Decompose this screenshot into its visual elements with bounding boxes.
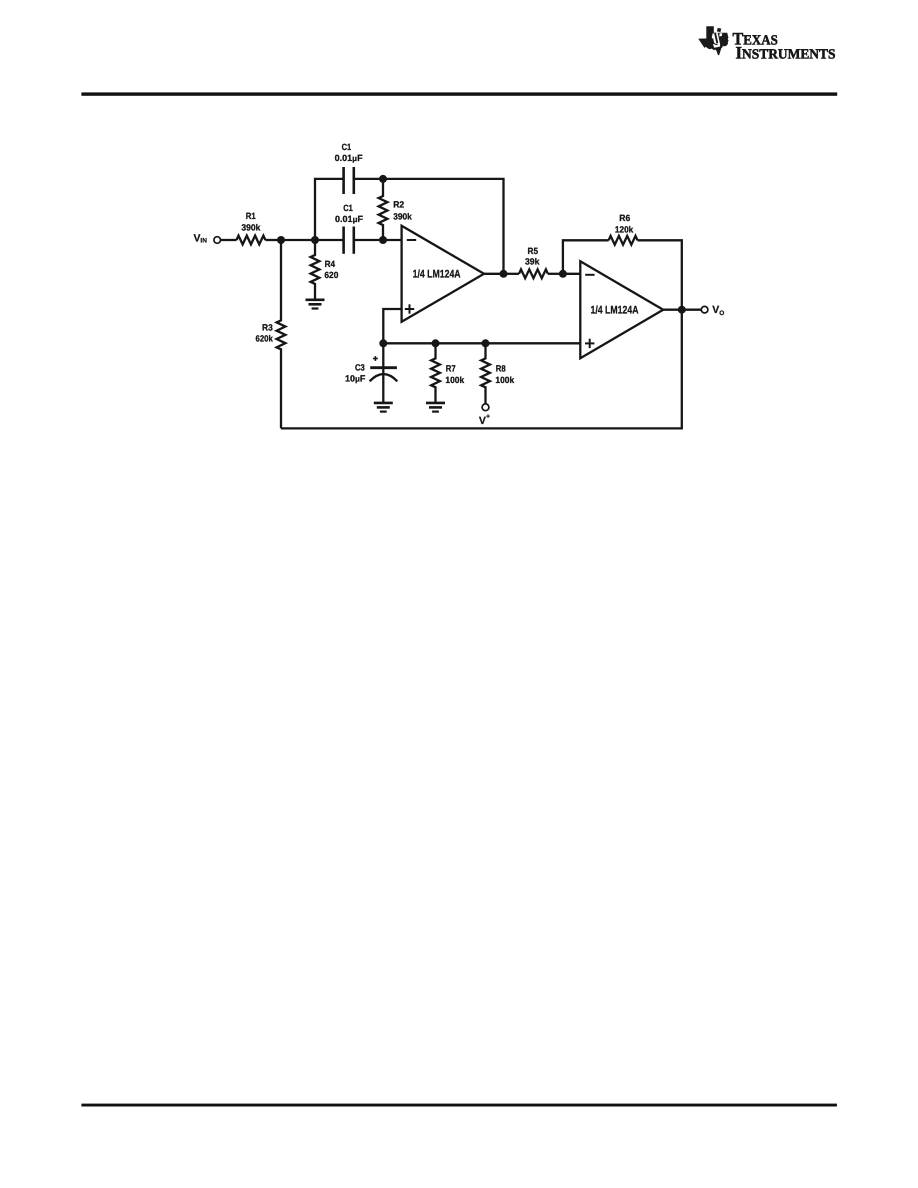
svg-text:V: V bbox=[479, 415, 486, 427]
op-amp U1 1/4 LM124A bbox=[402, 226, 484, 322]
svg-text:39k: 39k bbox=[525, 257, 540, 267]
svg-text:R2: R2 bbox=[393, 199, 404, 209]
node G junction (output) bbox=[678, 306, 686, 314]
wire plus rail node H to op-amp U2 plus input bbox=[383, 342, 580, 344]
node D junction (top of R2) bbox=[379, 175, 387, 183]
svg-text:C1: C1 bbox=[343, 203, 353, 213]
wire node C to op-amp U1 minus input bbox=[383, 239, 402, 241]
resistor R6 bbox=[609, 236, 638, 245]
capacitor C1 (input, lower) bbox=[344, 227, 354, 254]
node VIN terminal bbox=[214, 237, 221, 244]
svg-text:1/4 LM124A: 1/4 LM124A bbox=[413, 268, 461, 280]
svg-text:1/4 LM124A: 1/4 LM124A bbox=[591, 304, 639, 316]
TI logo Texas-map emblem bbox=[698, 26, 728, 55]
node J junction bbox=[482, 339, 490, 347]
wire C3 to ground bbox=[382, 381, 384, 402]
op-amp U1 plus sign bbox=[405, 304, 414, 313]
label C1 0.01uF (top) bbox=[335, 142, 363, 163]
op-amp U2 plus sign bbox=[585, 339, 594, 348]
wire VIN to R1 bbox=[221, 239, 237, 241]
resistor R7 bbox=[431, 343, 440, 402]
svg-text:R1: R1 bbox=[246, 211, 256, 221]
wire R1 to node A bbox=[265, 239, 281, 241]
resistor R4 bbox=[311, 240, 320, 299]
op-amp U2 1/4 LM124A bbox=[580, 261, 663, 358]
label VIN bbox=[194, 233, 208, 245]
ground for R4 bbox=[306, 300, 325, 309]
wire op-amp U2 output to node G bbox=[663, 309, 682, 311]
label C3 10uF bbox=[345, 362, 366, 383]
wire node B up to top capacitor branch bbox=[315, 179, 344, 240]
wire node F up to R6 feedback bbox=[563, 240, 609, 273]
svg-text:C1: C1 bbox=[342, 142, 352, 152]
svg-text:100k: 100k bbox=[445, 375, 465, 385]
svg-text:R6: R6 bbox=[619, 213, 630, 223]
svg-text:390k: 390k bbox=[393, 212, 413, 222]
label C1 0.01uF (lower) bbox=[335, 203, 363, 224]
label R5 39k bbox=[525, 246, 540, 267]
wire R6 to node G bbox=[638, 240, 682, 309]
resistor R1 bbox=[237, 236, 266, 245]
bottom rule bbox=[81, 1104, 837, 1107]
svg-text:R8: R8 bbox=[496, 363, 506, 373]
wire node E to R5 bbox=[504, 273, 520, 275]
svg-text:R3: R3 bbox=[262, 322, 273, 332]
resistor R5 bbox=[519, 269, 548, 278]
label R7 100k bbox=[445, 363, 465, 385]
svg-text:390k: 390k bbox=[241, 223, 261, 233]
label R4 620 bbox=[324, 259, 338, 280]
node C junction (inverting input) bbox=[379, 236, 387, 244]
node B junction bbox=[311, 236, 319, 244]
label R6 120k bbox=[615, 213, 634, 235]
label U1 1/4 LM124A bbox=[413, 268, 461, 280]
node A junction bbox=[277, 236, 285, 244]
svg-text:R4: R4 bbox=[325, 259, 336, 269]
node V+ terminal bbox=[482, 404, 489, 411]
label R8 100k bbox=[495, 363, 515, 385]
svg-text:10μF: 10μF bbox=[345, 374, 366, 384]
label R1 390k bbox=[241, 211, 261, 233]
label VO bbox=[712, 304, 724, 317]
node I junction bbox=[432, 339, 440, 347]
label U2 1/4 LM124A bbox=[591, 304, 639, 316]
svg-text:O: O bbox=[719, 310, 724, 317]
node VO terminal bbox=[701, 306, 708, 313]
ground for C3 bbox=[374, 403, 393, 412]
label R3 620k bbox=[256, 322, 274, 343]
svg-text:120k: 120k bbox=[615, 225, 634, 235]
wire node B to capacitor C1b bbox=[315, 239, 344, 241]
node H junction bbox=[379, 339, 387, 347]
svg-text:0.01μF: 0.01μF bbox=[335, 153, 363, 163]
wire node F to op-amp U2 minus input bbox=[563, 273, 580, 275]
TI logo wordmark TEXAS INSTRUMENTS bbox=[733, 29, 836, 63]
svg-text:+: + bbox=[486, 413, 490, 420]
svg-text:100k: 100k bbox=[495, 375, 515, 385]
svg-text:R7: R7 bbox=[446, 363, 456, 373]
svg-text:0.01μF: 0.01μF bbox=[335, 214, 363, 224]
top rule bbox=[81, 92, 837, 95]
resistor R2 bbox=[379, 179, 388, 240]
wire capacitor C1a to node D bbox=[354, 178, 383, 180]
svg-text:C3: C3 bbox=[355, 362, 365, 372]
ground for R7 bbox=[426, 403, 445, 412]
wire feedback bottom rail from R3 to node G bbox=[281, 310, 682, 429]
capacitor C3 electrolytic bbox=[370, 343, 398, 381]
svg-text:V: V bbox=[712, 304, 719, 316]
wire node A to node B bbox=[281, 239, 315, 241]
resistor R8 bbox=[481, 343, 490, 403]
op-amp U2 minus sign bbox=[585, 274, 594, 276]
label V+ bbox=[479, 413, 490, 427]
label C3 plus polarity bbox=[373, 356, 378, 361]
label R2 390k bbox=[393, 199, 413, 221]
svg-text:620k: 620k bbox=[256, 333, 274, 343]
node E junction (U1 output) bbox=[500, 270, 508, 278]
wire capacitor C1b to node C bbox=[354, 239, 383, 241]
wire node D right and down to node E bbox=[383, 179, 504, 274]
capacitor C1 (feedback, top) bbox=[344, 167, 354, 194]
wire R5 to node F bbox=[548, 273, 563, 275]
svg-text:620: 620 bbox=[324, 270, 338, 280]
node F junction (U2 inverting input) bbox=[559, 270, 567, 278]
wire op-amp U1 plus input down to node H bbox=[383, 309, 401, 343]
svg-text:R5: R5 bbox=[528, 246, 539, 256]
wire node G to VO terminal bbox=[682, 309, 701, 311]
op-amp U1 minus sign bbox=[407, 239, 416, 241]
resistor R3 bbox=[277, 240, 286, 428]
svg-text:IN: IN bbox=[200, 238, 207, 245]
wire op-amp U1 output to node E bbox=[484, 273, 504, 275]
